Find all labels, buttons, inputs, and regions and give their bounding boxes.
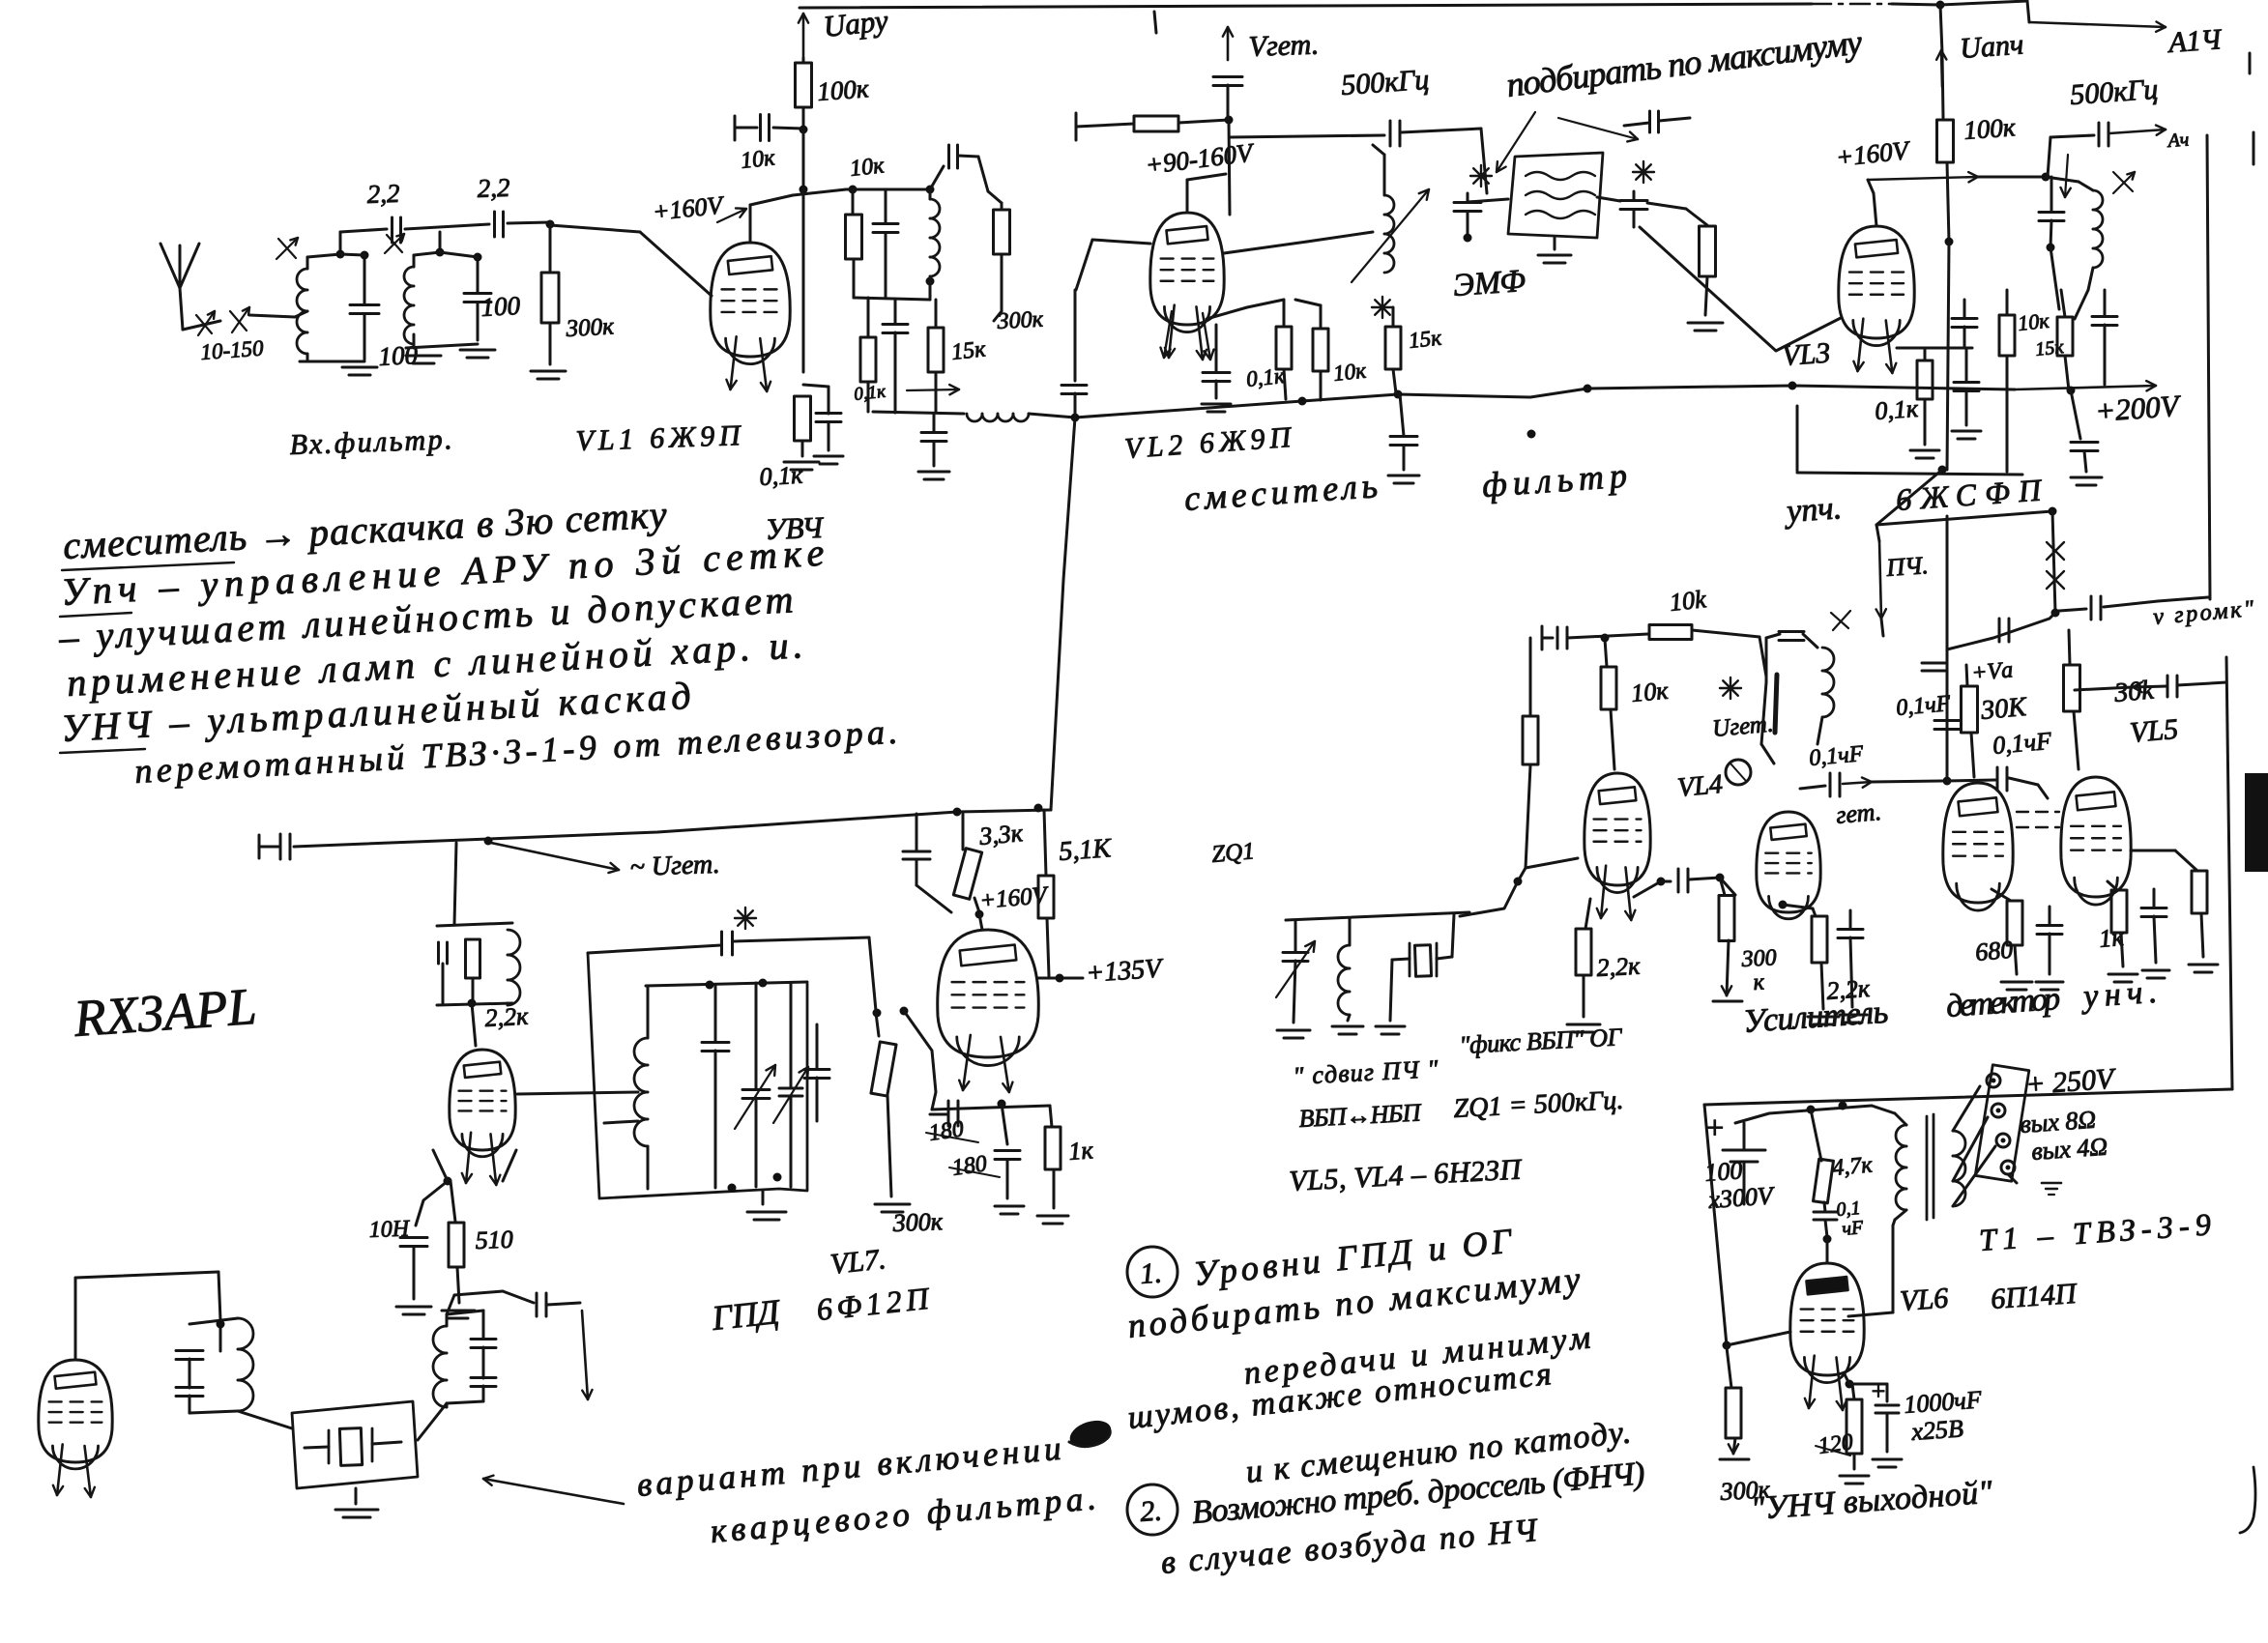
svg-text:VL5: VL5 bbox=[2129, 713, 2180, 749]
svg-text:Ач: Ач bbox=[2166, 130, 2190, 153]
svg-text:500кГц: 500кГц bbox=[1340, 64, 1430, 101]
svg-text:10к: 10к bbox=[1630, 677, 1670, 707]
svg-text:10k: 10k bbox=[1669, 585, 1708, 617]
svg-text:300к: 300к bbox=[996, 307, 1044, 335]
svg-text:~ Uгет.: ~ Uгет. bbox=[629, 850, 720, 882]
svg-text:2,2к: 2,2к bbox=[1596, 952, 1642, 982]
svg-text:Uапч: Uапч bbox=[1959, 28, 2024, 65]
svg-text:х25В: х25В bbox=[1909, 1414, 1963, 1446]
svg-text:+135V: +135V bbox=[1085, 953, 1165, 989]
svg-text:ГПД: ГПД bbox=[710, 1292, 783, 1338]
svg-text:100к: 100к bbox=[816, 73, 869, 106]
svg-text:1000чF: 1000чF bbox=[1903, 1385, 1983, 1419]
svg-text:VL4: VL4 bbox=[1676, 769, 1724, 803]
svg-text:вых 4Ω: вых 4Ω bbox=[2030, 1133, 2108, 1166]
svg-text:100: 100 bbox=[1703, 1156, 1743, 1187]
svg-text:+: + bbox=[1870, 1377, 1887, 1405]
svg-text:VL7.: VL7. bbox=[829, 1243, 887, 1281]
svg-text:15к: 15к bbox=[950, 336, 988, 365]
svg-text:1к: 1к bbox=[2098, 923, 2125, 953]
svg-text:+: + bbox=[1703, 1110, 1726, 1146]
svg-text:А1Ч: А1Ч bbox=[2166, 23, 2224, 59]
svg-text:15к: 15к bbox=[2034, 336, 2065, 360]
svg-text:10-150: 10-150 bbox=[200, 335, 265, 364]
svg-text:2,2к: 2,2к bbox=[1825, 974, 1871, 1005]
svg-text:300к: 300к bbox=[891, 1207, 944, 1237]
svg-text:1к: 1к bbox=[1067, 1136, 1094, 1166]
svg-text:чF: чF bbox=[1842, 1217, 1865, 1240]
svg-text:Вх.фильтр.: Вх.фильтр. bbox=[289, 423, 452, 461]
svg-text:1.: 1. bbox=[1139, 1256, 1163, 1289]
svg-text:ЭМФ: ЭМФ bbox=[1452, 264, 1527, 303]
svg-text:10к: 10к bbox=[740, 145, 777, 174]
svg-text:15к: 15к bbox=[1408, 326, 1442, 353]
svg-text:+200V: +200V bbox=[2094, 389, 2183, 428]
svg-text:0,1к: 0,1к bbox=[1245, 363, 1286, 391]
svg-text:2,2: 2,2 bbox=[366, 179, 400, 209]
svg-text:30k: 30k bbox=[2112, 676, 2156, 709]
svg-text:2,2к: 2,2к bbox=[484, 1002, 530, 1032]
svg-text:2.: 2. bbox=[1139, 1494, 1163, 1527]
svg-text:10Н: 10Н bbox=[368, 1217, 411, 1243]
svg-text:5,1К: 5,1К bbox=[1058, 833, 1113, 867]
svg-text:+Vа: +Vа bbox=[1970, 657, 2014, 686]
svg-text:10к: 10к bbox=[1332, 359, 1367, 386]
svg-text:100к: 100к bbox=[1963, 112, 2016, 145]
svg-text:0,1чF: 0,1чF bbox=[1992, 727, 2053, 760]
svg-text:ПЧ.: ПЧ. bbox=[1884, 551, 1929, 582]
svg-text:500кГц: 500кГц bbox=[2069, 73, 2159, 111]
svg-text:510: 510 bbox=[475, 1225, 513, 1254]
svg-text:3,3к: 3,3к bbox=[977, 819, 1025, 850]
svg-text:VL6: VL6 bbox=[1899, 1283, 1949, 1317]
svg-text:300: 300 bbox=[1740, 945, 1777, 972]
svg-text:0,1к: 0,1к bbox=[853, 382, 887, 405]
svg-text:100: 100 bbox=[480, 291, 522, 322]
svg-text:х300V: х300V bbox=[1706, 1181, 1776, 1214]
svg-text:0,1к: 0,1к bbox=[1874, 394, 1919, 425]
svg-text:к: к bbox=[1753, 969, 1765, 995]
svg-text:гет.: гет. bbox=[1835, 797, 1882, 829]
svg-text:180: 180 bbox=[950, 1151, 988, 1181]
svg-text:Uару: Uару bbox=[822, 3, 889, 43]
svg-text:4,7к: 4,7к bbox=[1831, 1152, 1874, 1181]
svg-text:0,1чF: 0,1чF bbox=[1808, 741, 1865, 771]
svg-text:0,1к: 0,1к bbox=[759, 461, 804, 491]
svg-text:680: 680 bbox=[1974, 936, 2014, 966]
svg-text:VL3: VL3 bbox=[1781, 337, 1831, 372]
svg-text:ZQ1: ZQ1 bbox=[1210, 838, 1256, 868]
svg-text:10к: 10к bbox=[2017, 308, 2050, 335]
svg-text:6П14П: 6П14П bbox=[1990, 1278, 2079, 1315]
svg-text:180: 180 bbox=[927, 1116, 965, 1146]
svg-text:300к: 300к bbox=[565, 313, 615, 342]
svg-text:+ 250V: + 250V bbox=[2024, 1062, 2118, 1101]
svg-text:2,2: 2,2 bbox=[477, 173, 510, 203]
svg-text:0,1чF: 0,1чF bbox=[1895, 691, 1952, 721]
svg-text:упч.: упч. bbox=[1783, 490, 1843, 530]
svg-text:Vгет.: Vгет. bbox=[1248, 28, 1320, 63]
svg-text:30K: 30K bbox=[1979, 692, 2029, 726]
svg-text:10к: 10к bbox=[849, 153, 887, 182]
